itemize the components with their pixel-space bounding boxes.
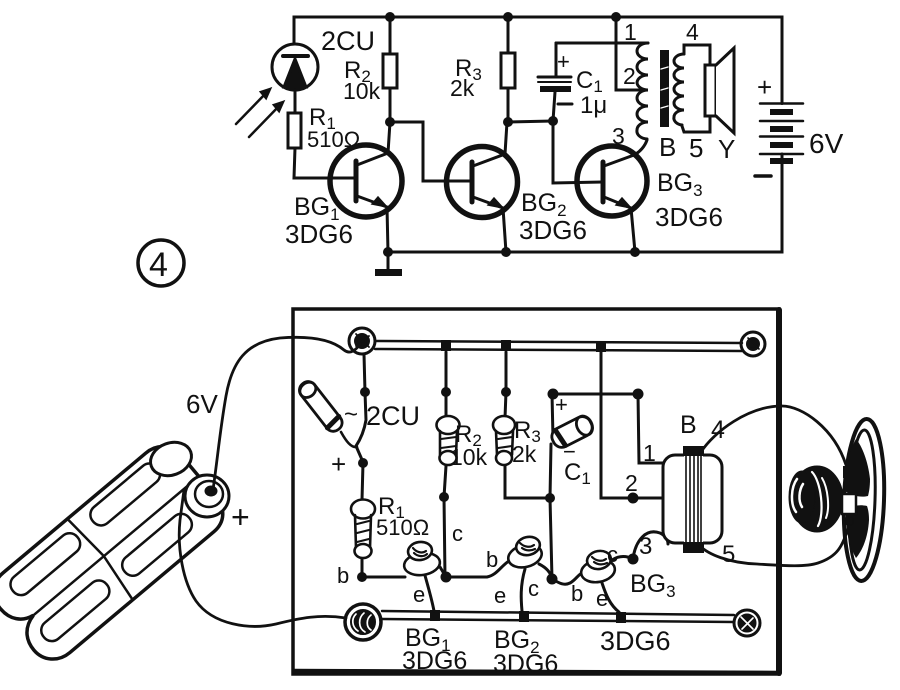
svg-text:b: b	[337, 563, 349, 588]
svg-text:3DG6: 3DG6	[519, 215, 587, 245]
svg-text:5: 5	[722, 541, 735, 568]
svg-text:3: 3	[639, 533, 652, 560]
svg-text:4: 4	[686, 19, 699, 45]
svg-text:510Ω: 510Ω	[307, 127, 360, 152]
svg-text:6V: 6V	[186, 389, 218, 419]
svg-text:3DG6: 3DG6	[285, 219, 353, 249]
svg-text:2k: 2k	[450, 75, 475, 101]
svg-text:1μ: 1μ	[580, 92, 607, 119]
svg-text:e: e	[596, 586, 608, 611]
svg-text:e: e	[413, 582, 425, 607]
svg-text:3DG6: 3DG6	[655, 202, 723, 232]
svg-text:b: b	[571, 581, 583, 606]
svg-text:c: c	[452, 521, 463, 546]
svg-text:510Ω: 510Ω	[376, 515, 429, 540]
svg-text:1: 1	[624, 19, 637, 45]
svg-text:2: 2	[625, 470, 638, 496]
svg-text:B: B	[680, 411, 697, 439]
svg-text:~: ~	[344, 401, 358, 428]
svg-text:10k: 10k	[343, 78, 381, 104]
svg-text:6V: 6V	[809, 128, 844, 159]
svg-text:+: +	[557, 49, 570, 74]
svg-text:2CU: 2CU	[321, 26, 375, 56]
svg-text:1: 1	[643, 440, 656, 466]
svg-text:3DG6: 3DG6	[402, 647, 467, 675]
svg-text:b: b	[486, 547, 498, 572]
svg-text:+: +	[757, 72, 772, 102]
svg-text:c: c	[528, 576, 539, 601]
svg-text:2CU: 2CU	[366, 401, 420, 431]
svg-text:+: +	[231, 499, 250, 535]
svg-text:B: B	[659, 132, 676, 162]
svg-text:3DG6: 3DG6	[600, 626, 671, 656]
svg-text:3DG6: 3DG6	[493, 650, 558, 678]
svg-text:+: +	[555, 392, 568, 417]
svg-text:e: e	[494, 583, 506, 608]
svg-text:3: 3	[612, 123, 625, 149]
svg-text:+: +	[331, 449, 346, 479]
svg-text:Y: Y	[718, 134, 735, 164]
svg-text:4: 4	[149, 246, 168, 284]
svg-text:4: 4	[711, 416, 725, 444]
svg-text:c: c	[607, 542, 618, 567]
svg-text:2: 2	[623, 63, 636, 89]
svg-text:5: 5	[689, 133, 703, 163]
svg-text:2k: 2k	[512, 441, 537, 467]
svg-text:10k: 10k	[450, 444, 488, 470]
